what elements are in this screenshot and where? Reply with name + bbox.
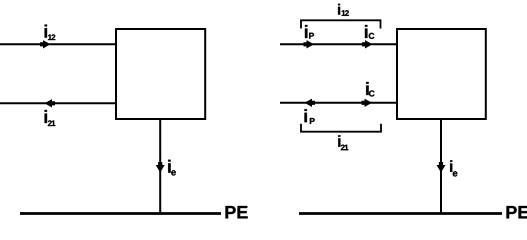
device box U1 (left) xyxy=(116,29,205,119)
label i21 (right bottom) xyxy=(338,135,340,147)
label i21 (right bottom) subscript xyxy=(341,145,349,151)
label i12 (left top) xyxy=(45,25,47,38)
label i12 (right top) subscript xyxy=(342,10,349,16)
wire PE lead (right) xyxy=(440,119,442,213)
label i21 (left bottom) subscript xyxy=(48,120,56,126)
arrow ie down (right) xyxy=(437,162,446,173)
wire conductor 2 (left bottom) xyxy=(0,102,116,104)
label ip (right middle below) xyxy=(304,109,306,122)
label ie (right) subscript xyxy=(453,171,458,176)
label PE (left) xyxy=(226,206,248,218)
wire conductor 1 (left top) xyxy=(0,43,116,45)
arrow i12 right (left top wire) xyxy=(40,40,51,48)
label ip (right top) xyxy=(305,25,307,38)
label ip (right middle below) subscript xyxy=(310,118,315,124)
arrow ie down (left) xyxy=(156,162,165,173)
arrow ic right (right middle wire) xyxy=(362,99,373,107)
label i21 (left bottom) xyxy=(45,110,47,123)
label i12 (right top) xyxy=(338,4,340,15)
wire conductor 2 (right middle) xyxy=(280,102,397,104)
label ic (right top) subscript xyxy=(369,33,375,39)
label ie (left) subscript xyxy=(171,170,176,175)
ground rail PE (right) xyxy=(299,212,502,215)
label PE (right) xyxy=(507,206,527,218)
label ip (right top) subscript xyxy=(309,33,314,39)
wire PE lead (left) xyxy=(159,119,161,213)
label ic (right middle) xyxy=(366,82,368,95)
arrow ip left (right middle wire) xyxy=(305,99,316,107)
label ic (right middle) subscript xyxy=(369,90,375,96)
device box U2 (right) xyxy=(397,29,486,119)
label ie (left) xyxy=(168,160,170,173)
arrow ic right (right top wire) xyxy=(362,40,373,48)
bracket span i21 (right bottom) xyxy=(301,124,381,132)
label ic (right top) xyxy=(365,25,367,38)
ground rail PE (left) xyxy=(20,212,221,215)
arrow i21 left (left bottom wire) xyxy=(45,99,56,107)
arrow ip right (right top wire) xyxy=(304,40,315,48)
wire conductor 1 (right top) xyxy=(280,43,397,45)
bracket span i12 (right top) xyxy=(301,20,381,28)
label ie (right) xyxy=(450,160,452,172)
label i12 (left top) subscript xyxy=(48,34,55,40)
